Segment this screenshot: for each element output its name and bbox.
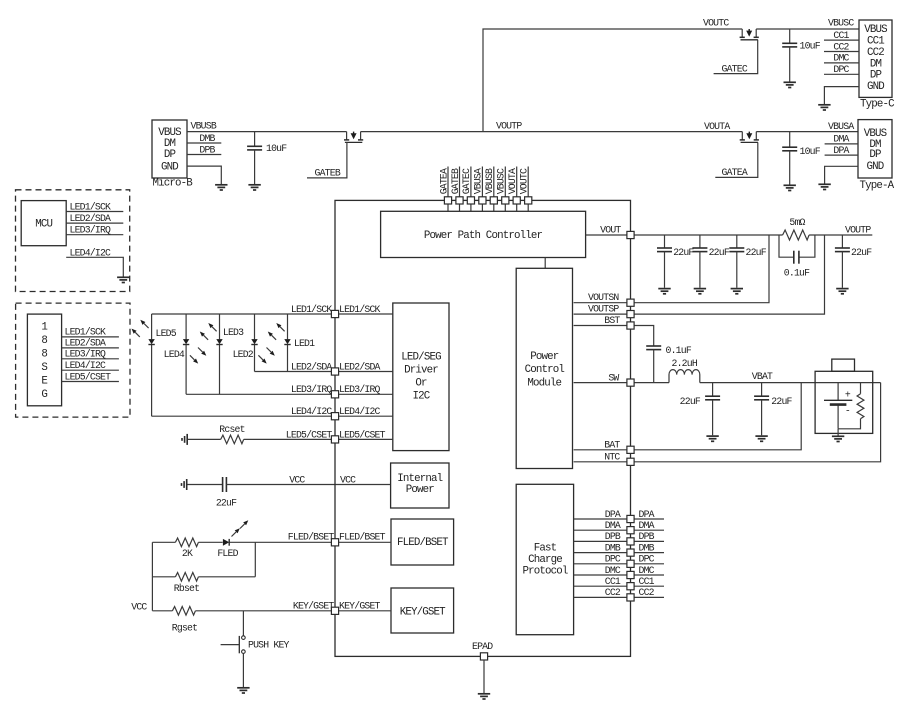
module: Fast Charge Protocol bbox=[516, 484, 573, 634]
svg-text:10uF: 10uF bbox=[266, 143, 287, 154]
svg-text:VOUTSN: VOUTSN bbox=[588, 292, 619, 303]
svg-text:Micro-B: Micro-B bbox=[153, 178, 194, 190]
pin pad DMC bbox=[627, 571, 634, 578]
svg-text:LED3/IRQ: LED3/IRQ bbox=[339, 384, 381, 395]
wire VBAT rail bbox=[700, 382, 881, 384]
wire NTC bbox=[574, 383, 881, 462]
capacitor 22uF (VOUT b) bbox=[699, 235, 701, 248]
wire DPB stub bbox=[187, 154, 221, 156]
svg-text:S: S bbox=[41, 362, 47, 374]
pin pad VBUSB bbox=[490, 197, 497, 204]
wire VOUTSP sense bbox=[574, 235, 825, 314]
wire CC2 bbox=[574, 596, 664, 598]
wire VOUTC top stub bbox=[527, 167, 529, 212]
wire LED4/I2C inner bbox=[335, 415, 393, 417]
wire SEG LED4/I2C bbox=[62, 369, 119, 371]
ground (VOUT b) bbox=[694, 289, 706, 294]
svg-text:DP: DP bbox=[164, 149, 176, 161]
ground (VBUSB cap) bbox=[248, 185, 260, 190]
pin pad LED3/IRQ bbox=[331, 391, 338, 398]
ground (Micro-B GND) bbox=[215, 185, 227, 190]
svg-text:DMA: DMA bbox=[605, 520, 621, 531]
svg-text:BST: BST bbox=[604, 315, 620, 326]
svg-text:Type-C: Type-C bbox=[860, 98, 895, 110]
svg-text:EPAD: EPAD bbox=[472, 641, 493, 652]
resistor 5mOhm current sense bbox=[783, 230, 810, 240]
1888 SEG example block (dashed) bbox=[16, 303, 130, 417]
pin pad NTC bbox=[627, 458, 634, 465]
wire Rcset left bbox=[188, 438, 221, 440]
svg-text:LED3/IRQ: LED3/IRQ bbox=[70, 225, 112, 236]
LED D1 bbox=[287, 314, 289, 372]
svg-text:LED3/IRQ: LED3/IRQ bbox=[291, 384, 333, 395]
pin pad VOUTSN bbox=[627, 299, 634, 306]
svg-text:Power Path Controller: Power Path Controller bbox=[424, 230, 543, 242]
svg-text:GND: GND bbox=[867, 81, 884, 93]
wire net LED3/IRQ rail bbox=[186, 393, 331, 395]
wire LED1/SCK inner bbox=[335, 313, 393, 315]
svg-text:LED4/I2C: LED4/I2C bbox=[339, 406, 381, 417]
transistor QA (Type-A load switch) bbox=[740, 132, 759, 143]
svg-text:LED5/CSET: LED5/CSET bbox=[286, 429, 333, 440]
wire VOUTSN sense bbox=[574, 235, 769, 303]
ground (Rcset return) bbox=[182, 434, 187, 445]
capacitor 10uF (Type-C VBUS) bbox=[789, 29, 791, 43]
svg-text:DM: DM bbox=[870, 58, 882, 70]
svg-text:DPB: DPB bbox=[639, 531, 655, 542]
wire battery return bbox=[837, 429, 839, 436]
wire FLED branch top bbox=[152, 542, 331, 611]
svg-text:VBUSC: VBUSC bbox=[828, 18, 854, 29]
capacitor 10uF (VBUSA) bbox=[789, 132, 791, 148]
svg-text:E: E bbox=[41, 376, 47, 388]
svg-text:8: 8 bbox=[41, 349, 47, 361]
switch PUSH KEY bbox=[242, 611, 244, 636]
svg-text:DP: DP bbox=[870, 70, 882, 82]
wire GATEC gate stub bbox=[714, 40, 758, 74]
pin pad DPC bbox=[627, 560, 634, 567]
svg-text:BAT: BAT bbox=[604, 440, 620, 451]
svg-text:0.1uF: 0.1uF bbox=[784, 267, 810, 278]
wire EPAD to ground bbox=[483, 660, 485, 693]
svg-text:LED1/SCK: LED1/SCK bbox=[70, 201, 112, 212]
svg-text:Control: Control bbox=[525, 364, 565, 376]
svg-text:VBUSC: VBUSC bbox=[496, 168, 507, 194]
svg-text:5mΩ: 5mΩ bbox=[789, 217, 805, 228]
connector J2 Micro-B receptacle bbox=[152, 120, 187, 178]
ground (Type-C cap) bbox=[784, 82, 796, 87]
IC U1 (power bank system-on-chip) outline bbox=[335, 200, 631, 656]
wire MCU LED4/I2C to ground bbox=[66, 257, 123, 276]
capacitor 10uF (VBUSB) bbox=[254, 132, 256, 147]
ground (VOUTP cap) bbox=[836, 289, 848, 294]
connector J1 Type-C receptacle bbox=[859, 20, 892, 97]
svg-text:GATEC: GATEC bbox=[461, 168, 472, 194]
svg-text:CC2: CC2 bbox=[639, 587, 655, 598]
svg-text:FLED/BSET: FLED/BSET bbox=[397, 537, 449, 549]
svg-text:CC1: CC1 bbox=[639, 576, 655, 587]
wire VBUSA top stub bbox=[481, 167, 483, 212]
ground (Type-C GND) bbox=[818, 105, 830, 110]
ground (battery) bbox=[832, 436, 844, 441]
svg-text:Power: Power bbox=[530, 351, 559, 363]
wire SEG LED3/IRQ bbox=[62, 358, 119, 360]
wire SEG LED2/SDA bbox=[62, 347, 119, 349]
wire BAT bbox=[574, 383, 802, 450]
wire VOUTC net: tap from VOUTP rail up to Type-C switch bbox=[483, 29, 742, 132]
wire BST bbox=[574, 326, 654, 347]
svg-text:Fast: Fast bbox=[534, 543, 557, 555]
wire Type-C GND bbox=[824, 87, 859, 104]
wire QA to Type-A VBUS bbox=[756, 131, 858, 133]
svg-text:LED/SEG: LED/SEG bbox=[401, 352, 441, 364]
ground (VOUT c) bbox=[731, 289, 743, 294]
svg-text:VBUSA: VBUSA bbox=[828, 121, 854, 132]
svg-text:CC1: CC1 bbox=[867, 35, 884, 47]
svg-text:LED1/SCK: LED1/SCK bbox=[65, 327, 107, 338]
svg-text:Rgset: Rgset bbox=[172, 622, 197, 633]
svg-text:2.2uH: 2.2uH bbox=[672, 358, 698, 369]
wire DPB bbox=[574, 540, 664, 542]
svg-text:LED2/SDA: LED2/SDA bbox=[339, 361, 381, 372]
svg-text:DMB: DMB bbox=[605, 542, 621, 553]
svg-text:FLED/BSET: FLED/BSET bbox=[339, 532, 386, 543]
svg-text:22uF: 22uF bbox=[851, 247, 872, 258]
wire DMC bbox=[574, 574, 664, 576]
ground (MCU I2C select) bbox=[117, 277, 129, 282]
svg-text:DMA: DMA bbox=[833, 134, 849, 145]
svg-text:GATEA: GATEA bbox=[438, 168, 449, 194]
wire SEG LED1/SCK bbox=[62, 336, 119, 338]
capacitor 22uF (VCC) bbox=[223, 477, 227, 492]
svg-text:LED5/CSET: LED5/CSET bbox=[65, 371, 112, 382]
svg-text:DMC: DMC bbox=[639, 565, 655, 576]
wire VOUT rail bbox=[586, 234, 783, 236]
svg-text:VOUTA: VOUTA bbox=[704, 121, 730, 132]
wire CC1 stub bbox=[824, 39, 859, 41]
pin pad LED5/CSET bbox=[331, 436, 338, 443]
pin pad FLED/BSET bbox=[331, 539, 338, 546]
svg-text:VOUT: VOUT bbox=[600, 225, 621, 236]
pin pad GATEA bbox=[444, 197, 451, 204]
wire DMA bbox=[574, 529, 664, 531]
svg-text:22uF: 22uF bbox=[673, 247, 694, 258]
svg-text:VCC: VCC bbox=[289, 474, 305, 485]
svg-text:KEY/GSET: KEY/GSET bbox=[339, 601, 381, 612]
battery cell BT1 bbox=[837, 383, 839, 429]
wire DMB stub bbox=[187, 142, 221, 144]
wire push key to ground bbox=[242, 653, 244, 687]
LED D4 bbox=[185, 314, 187, 394]
pin pad VOUTA bbox=[513, 197, 520, 204]
svg-text:VOUTC: VOUTC bbox=[519, 168, 530, 194]
svg-text:LED3: LED3 bbox=[223, 327, 244, 338]
svg-text:DPB: DPB bbox=[199, 144, 215, 155]
svg-text:22uF: 22uF bbox=[746, 247, 767, 258]
capacitor 22uF (VOUT a) bbox=[664, 235, 666, 248]
svg-text:1: 1 bbox=[41, 322, 47, 334]
svg-text:VBUS: VBUS bbox=[864, 24, 887, 36]
svg-text:Driver: Driver bbox=[404, 365, 438, 377]
wire DPC bbox=[574, 563, 664, 565]
svg-text:GND: GND bbox=[161, 161, 178, 173]
svg-text:VCC: VCC bbox=[340, 474, 356, 485]
svg-text:VOUTA: VOUTA bbox=[507, 168, 518, 194]
wire DMB bbox=[574, 552, 664, 554]
ground (push key) bbox=[237, 688, 249, 693]
ground (VCC bypass return) bbox=[182, 479, 187, 490]
wire LED5/CSET inner bbox=[335, 438, 393, 440]
svg-text:DMB: DMB bbox=[639, 542, 655, 553]
capacitor 22uF (VBAT b) bbox=[761, 383, 763, 397]
wire KEY/GSET left bbox=[152, 610, 172, 612]
wire MCU LED2/SDA bbox=[66, 222, 123, 224]
svg-text:DPC: DPC bbox=[639, 554, 655, 565]
wire CC1 bbox=[574, 585, 664, 587]
wire DPC stub bbox=[824, 73, 859, 75]
wire MCU LED1/SCK bbox=[66, 211, 123, 213]
inductor 2.2uH bbox=[669, 370, 700, 383]
svg-text:CC1: CC1 bbox=[833, 30, 849, 41]
svg-text:22uF: 22uF bbox=[216, 497, 237, 508]
svg-text:LED5: LED5 bbox=[156, 328, 177, 339]
pin pad VOUTSP bbox=[627, 311, 634, 318]
svg-text:KEY/GSET: KEY/GSET bbox=[400, 606, 446, 618]
wire GATEB top stub bbox=[459, 167, 461, 212]
svg-text:22uF: 22uF bbox=[771, 396, 792, 407]
svg-text:FLED/BSET: FLED/BSET bbox=[288, 532, 335, 543]
svg-text:VCC: VCC bbox=[131, 601, 147, 612]
wire net LED2/SDA rail bbox=[255, 371, 332, 373]
svg-text:Or: Or bbox=[415, 378, 427, 390]
transistor QB (Micro-B input switch) bbox=[344, 132, 363, 143]
wire DPA bbox=[574, 518, 664, 520]
svg-text:VBUS: VBUS bbox=[864, 128, 887, 140]
pin pad VBUSA bbox=[479, 197, 486, 204]
pin pad GATEB bbox=[456, 197, 463, 204]
svg-text:NTC: NTC bbox=[604, 452, 620, 463]
svg-text:DP: DP bbox=[869, 149, 881, 161]
wire GATEA gate stub bbox=[715, 142, 758, 177]
svg-text:CC2: CC2 bbox=[605, 587, 621, 598]
LED D2 bbox=[254, 314, 256, 372]
svg-text:LED2/SDA: LED2/SDA bbox=[65, 338, 107, 349]
ground (VOUT a) bbox=[658, 289, 670, 294]
svg-text:Internal: Internal bbox=[397, 473, 442, 485]
wire VBUSB top stub bbox=[493, 167, 495, 212]
svg-text:I2C: I2C bbox=[413, 391, 431, 403]
pin pad CC1 bbox=[627, 583, 634, 590]
wire SEG LED5/CSET bbox=[62, 381, 119, 383]
svg-text:0.1uF: 0.1uF bbox=[666, 345, 692, 356]
pin pad BST bbox=[627, 322, 634, 329]
pin pad BAT bbox=[627, 446, 634, 453]
svg-text:VBAT: VBAT bbox=[752, 371, 773, 382]
svg-text:10uF: 10uF bbox=[800, 41, 821, 52]
svg-text:GATEB: GATEB bbox=[450, 168, 461, 194]
svg-text:DMA: DMA bbox=[639, 520, 655, 531]
wire Type-A GND bbox=[825, 166, 858, 183]
wire GATEA top stub bbox=[447, 167, 449, 212]
wire VOUTA top stub bbox=[516, 167, 518, 212]
svg-text:Module: Module bbox=[527, 377, 561, 389]
svg-text:VOUTC: VOUTC bbox=[703, 18, 729, 29]
connector J3 Type-A receptacle bbox=[858, 120, 892, 178]
ground (Type-A GND) bbox=[818, 184, 830, 189]
pin pad LED1/SCK bbox=[331, 310, 338, 317]
svg-text:DMC: DMC bbox=[833, 53, 849, 64]
wire net KEY/GSET bbox=[195, 610, 331, 612]
svg-text:LED4/I2C: LED4/I2C bbox=[65, 360, 107, 371]
svg-text:LED1: LED1 bbox=[294, 338, 315, 349]
wire VCC cap left bbox=[188, 484, 223, 486]
svg-text:PUSH KEY: PUSH KEY bbox=[248, 640, 290, 651]
wire net LED4/I2C rail bbox=[152, 415, 332, 417]
pin pad DPA bbox=[627, 515, 634, 522]
pin pad EPAD bbox=[480, 653, 487, 660]
svg-text:Rbset: Rbset bbox=[174, 583, 199, 594]
svg-text:DMB: DMB bbox=[199, 133, 215, 144]
svg-text:LED1/SCK: LED1/SCK bbox=[339, 304, 381, 315]
controller: Power Path Controller bbox=[381, 211, 586, 257]
wire net VCC bbox=[226, 484, 390, 486]
thermistor RT1 (pack NTC) bbox=[838, 383, 860, 429]
capacitor 0.1uF (across sense resistor) bbox=[779, 235, 815, 257]
pin pad VBUSC bbox=[502, 197, 509, 204]
MCU bbox=[21, 201, 66, 246]
ground (VBAT b) bbox=[755, 436, 767, 441]
wire DMA stub bbox=[825, 143, 858, 145]
svg-text:FLED: FLED bbox=[217, 548, 238, 559]
svg-text:8: 8 bbox=[41, 335, 47, 347]
svg-text:VOUTSP: VOUTSP bbox=[588, 304, 619, 315]
wire LED3/IRQ inner bbox=[335, 393, 393, 395]
pin pad LED2/SDA bbox=[331, 368, 338, 375]
module: LED/SEG Driver Or I2C bbox=[393, 303, 449, 451]
svg-text:LED5/CSET: LED5/CSET bbox=[339, 429, 386, 440]
svg-text:22uF: 22uF bbox=[680, 396, 701, 407]
svg-text:LED3/IRQ: LED3/IRQ bbox=[65, 349, 107, 360]
svg-text:DPA: DPA bbox=[605, 509, 621, 520]
svg-text:LED1/SCK: LED1/SCK bbox=[291, 304, 333, 315]
pin pad SW bbox=[627, 379, 634, 386]
svg-text:DPA: DPA bbox=[639, 509, 655, 520]
ground (VBAT a) bbox=[706, 436, 718, 441]
wire Rbset branch bbox=[152, 542, 255, 577]
pin pad DMA bbox=[627, 527, 634, 534]
pin pad DPB bbox=[627, 538, 634, 545]
pin pad LED4/I2C bbox=[331, 413, 338, 420]
wire CC2 stub bbox=[824, 51, 859, 53]
resistor Rcset bbox=[221, 435, 244, 444]
resistor Rbset bbox=[175, 573, 198, 582]
svg-text:G: G bbox=[41, 389, 47, 401]
svg-text:DPB: DPB bbox=[605, 531, 621, 542]
module: KEY/GSET bbox=[391, 588, 454, 633]
svg-text:GND: GND bbox=[867, 161, 884, 173]
resistor 2K bbox=[175, 538, 198, 547]
svg-text:GATEA: GATEA bbox=[722, 167, 748, 178]
resistor Rgset bbox=[172, 607, 195, 616]
pin pad KEY/GSET bbox=[331, 607, 338, 614]
wire PPC to PCM bbox=[544, 258, 546, 269]
svg-text:Charge: Charge bbox=[528, 554, 562, 566]
wire GATEB gate stub bbox=[307, 142, 347, 178]
wire GATEC top stub bbox=[470, 167, 472, 212]
wire DMC stub bbox=[824, 62, 859, 64]
capacitor 22uF (VOUT c) bbox=[736, 235, 738, 248]
capacitor 0.1uF (bootstrap) bbox=[646, 346, 661, 350]
svg-text:CC2: CC2 bbox=[833, 41, 849, 52]
module: FLED/BSET bbox=[391, 519, 454, 565]
wire VBUSC top stub bbox=[504, 167, 506, 212]
svg-text:DPC: DPC bbox=[833, 64, 849, 75]
pin pad DMB bbox=[627, 549, 634, 556]
wire net LED1/SCK rail bbox=[152, 313, 332, 315]
wire VBUSB rail bbox=[187, 131, 347, 133]
svg-text:VBUS: VBUS bbox=[158, 127, 181, 139]
pin pad GATEC bbox=[467, 197, 474, 204]
wire LED2/SDA inner bbox=[335, 371, 393, 373]
svg-text:GATEB: GATEB bbox=[315, 168, 341, 179]
svg-text:-: - bbox=[845, 406, 850, 417]
svg-text:SW: SW bbox=[608, 372, 619, 383]
LED FLED (flash LED) bbox=[223, 539, 229, 546]
svg-text:VOUTP: VOUTP bbox=[845, 225, 871, 236]
wire net LED5/CSET bbox=[244, 438, 332, 440]
transistor QC (Type-C load switch) bbox=[740, 29, 759, 40]
svg-text:Type-A: Type-A bbox=[860, 180, 895, 192]
battery pack outline bbox=[815, 371, 873, 433]
svg-text:Power: Power bbox=[406, 484, 435, 496]
pin pad VOUTC bbox=[525, 197, 532, 204]
1888SEG display driver bbox=[27, 314, 61, 406]
pin pad CC2 bbox=[627, 594, 634, 601]
svg-text:Protocol: Protocol bbox=[522, 566, 567, 578]
svg-text:VBUSA: VBUSA bbox=[473, 168, 484, 194]
ground (VBUSA cap) bbox=[784, 185, 796, 190]
MCU example block (dashed) bbox=[16, 190, 130, 292]
svg-text:10uF: 10uF bbox=[800, 146, 821, 157]
svg-text:DPC: DPC bbox=[605, 554, 621, 565]
LED D5 bbox=[151, 314, 153, 416]
capacitor 22uF (VBAT a) bbox=[712, 383, 714, 397]
wire SW bbox=[574, 382, 669, 384]
svg-text:DPA: DPA bbox=[833, 145, 849, 156]
svg-text:VBUSB: VBUSB bbox=[191, 121, 217, 132]
svg-text:LED2: LED2 bbox=[233, 349, 254, 360]
ground (EPAD) bbox=[478, 694, 490, 699]
svg-text:2K: 2K bbox=[182, 548, 193, 559]
svg-text:LED2/SDA: LED2/SDA bbox=[291, 361, 333, 372]
wire DPA stub bbox=[825, 154, 858, 156]
svg-text:DMC: DMC bbox=[605, 565, 621, 576]
capacitor 22uF (VOUTP) bbox=[841, 235, 843, 248]
wire QC to Type-C VBUS bbox=[756, 28, 859, 30]
svg-text:22uF: 22uF bbox=[709, 247, 730, 258]
module: Internal Power bbox=[391, 463, 449, 508]
svg-text:LED2/SDA: LED2/SDA bbox=[70, 213, 112, 224]
wire MCU LED3/IRQ bbox=[66, 234, 123, 236]
module: Power Control Module bbox=[516, 268, 572, 468]
LED D3 bbox=[219, 314, 221, 394]
svg-text:CC1: CC1 bbox=[605, 576, 621, 587]
svg-text:VBUSB: VBUSB bbox=[484, 168, 495, 194]
svg-text:KEY/GSET: KEY/GSET bbox=[293, 601, 335, 612]
svg-text:VOUTP: VOUTP bbox=[496, 120, 522, 131]
pin pad VOUT bbox=[627, 231, 634, 238]
svg-text:LED4: LED4 bbox=[164, 349, 185, 360]
